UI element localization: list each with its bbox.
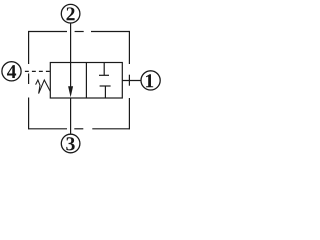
- wire port 2 line: [70, 23, 72, 62]
- blocked port T symbol (bottom, right valve position): [100, 86, 111, 98]
- port 3 label: [66, 137, 74, 150]
- port 2 circle: [61, 4, 80, 23]
- port 4 label: [7, 65, 16, 78]
- port 3 circle: [61, 134, 80, 153]
- wire port 3 line: [70, 98, 72, 134]
- port 4 pilot dashed line: [25, 70, 50, 72]
- port 4 circle: [2, 62, 21, 81]
- envelope left edge (dashed boundary): [28, 31, 30, 129]
- envelope right edge (dashed boundary): [128, 31, 130, 129]
- flow arrow in left valve position: [68, 63, 73, 98]
- port 1 label: [146, 74, 153, 87]
- wire port 1 line: [122, 80, 141, 82]
- valve body V1 (two-position envelope): [50, 63, 122, 99]
- spring (zigzag, left of valve): [36, 80, 51, 94]
- port 1 circle: [141, 71, 160, 90]
- envelope bottom edge (dashed boundary): [29, 128, 130, 130]
- blocked port T symbol (top, right valve position): [99, 63, 109, 76]
- port 2 label: [66, 7, 74, 20]
- envelope top edge (dashed boundary): [29, 31, 130, 33]
